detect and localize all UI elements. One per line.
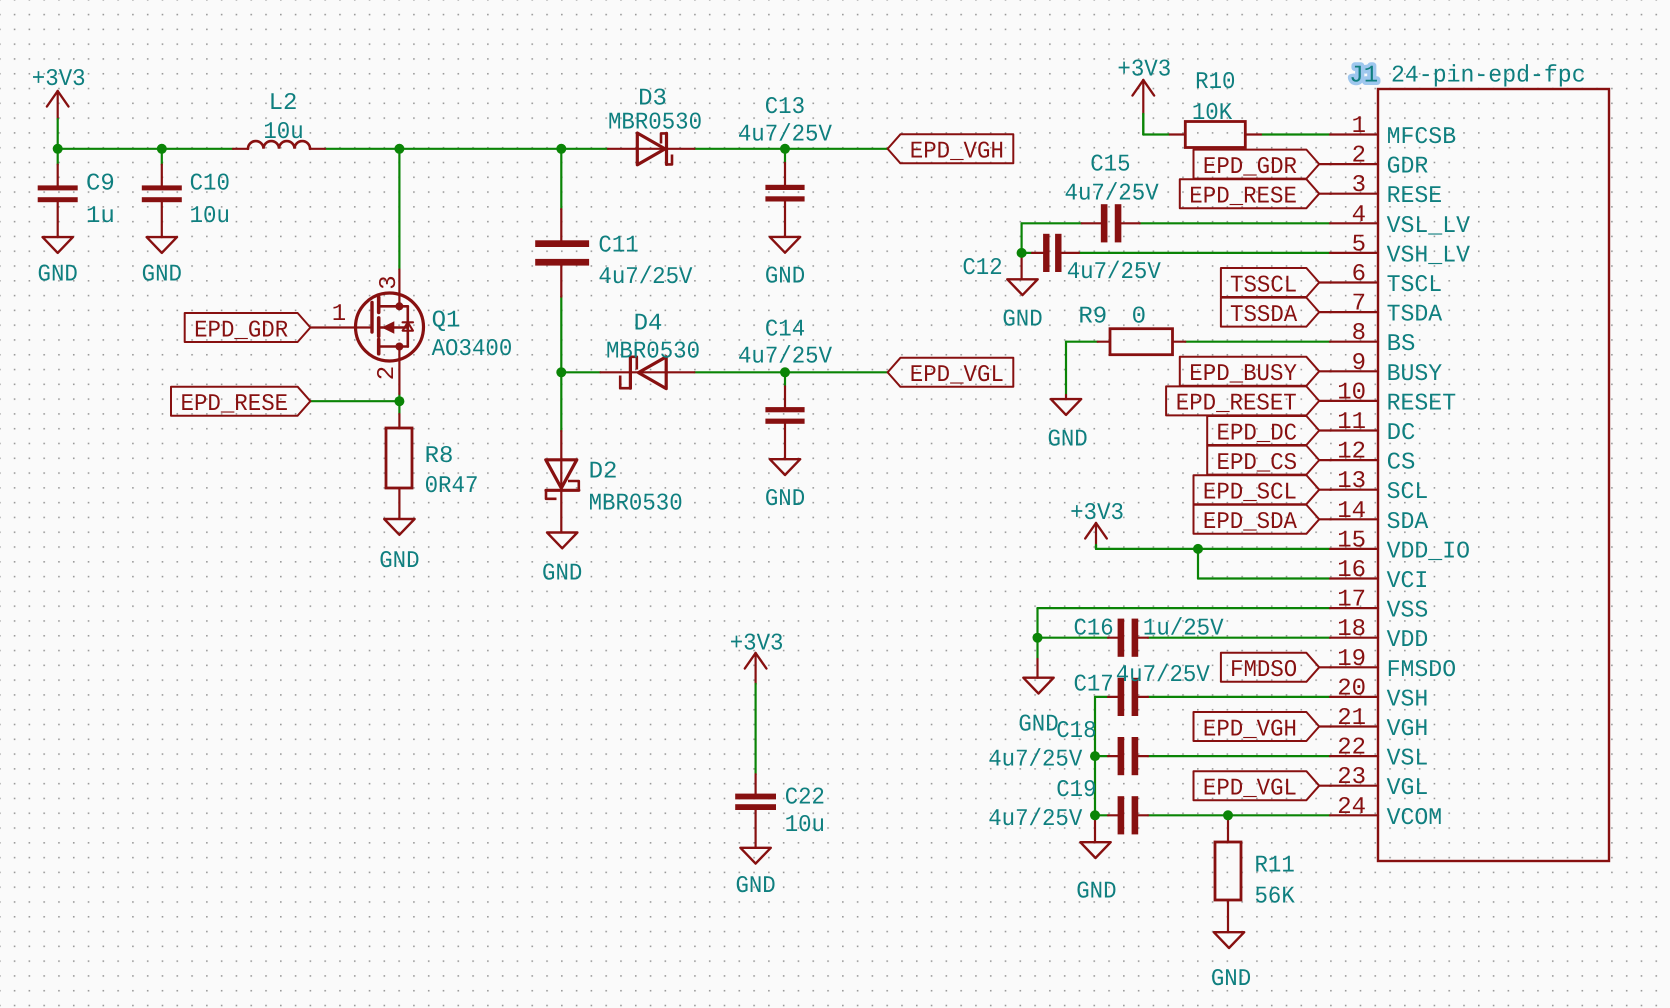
svg-text:4: 4 <box>1352 202 1366 229</box>
svg-text:GND: GND <box>1076 879 1116 906</box>
svg-text:24: 24 <box>1337 794 1366 821</box>
svg-text:GDR: GDR <box>1387 154 1429 181</box>
svg-text:+3V3: +3V3 <box>1070 500 1124 527</box>
svg-text:1u: 1u <box>86 203 115 230</box>
svg-text:4u7/25V: 4u7/25V <box>738 343 833 370</box>
svg-text:C10: C10 <box>190 171 230 198</box>
svg-text:TSSCL: TSSCL <box>1230 272 1297 299</box>
svg-text:16: 16 <box>1337 557 1366 584</box>
svg-text:MBR0530: MBR0530 <box>589 491 683 518</box>
svg-text:14: 14 <box>1337 498 1366 525</box>
svg-text:5: 5 <box>1352 231 1366 258</box>
svg-text:C13: C13 <box>765 94 805 121</box>
svg-text:MBR0530: MBR0530 <box>608 110 702 137</box>
svg-text:EPD_VGH: EPD_VGH <box>1203 716 1297 743</box>
svg-text:C19: C19 <box>1056 777 1096 804</box>
svg-text:2: 2 <box>374 366 401 380</box>
svg-text:VCI: VCI <box>1387 568 1429 595</box>
svg-text:VSH_LV: VSH_LV <box>1387 242 1471 269</box>
svg-text:L2: L2 <box>269 90 298 117</box>
svg-text:1: 1 <box>332 301 346 328</box>
svg-text:C9: C9 <box>86 171 115 198</box>
svg-text:8: 8 <box>1352 320 1366 347</box>
svg-text:VSS: VSS <box>1387 598 1429 625</box>
svg-text:GND: GND <box>1047 427 1087 454</box>
svg-text:EPD_DC: EPD_DC <box>1216 420 1297 447</box>
svg-text:DC: DC <box>1387 420 1416 447</box>
svg-text:EPD_RESE: EPD_RESE <box>181 391 289 418</box>
svg-text:VCOM: VCOM <box>1387 805 1443 832</box>
svg-text:GND: GND <box>38 262 78 289</box>
svg-text:C12: C12 <box>962 255 1002 282</box>
svg-text:10u: 10u <box>190 203 230 230</box>
svg-text:VDD_IO: VDD_IO <box>1387 538 1470 565</box>
svg-text:GND: GND <box>1211 966 1251 993</box>
svg-text:TSCL: TSCL <box>1387 272 1443 299</box>
svg-text:EPD_VGL: EPD_VGL <box>910 362 1004 389</box>
svg-text:C18: C18 <box>1056 718 1096 745</box>
svg-text:BUSY: BUSY <box>1387 361 1443 388</box>
svg-text:2: 2 <box>1352 143 1366 170</box>
svg-text:GND: GND <box>1018 712 1058 739</box>
svg-text:EPD_VGL: EPD_VGL <box>1203 776 1297 803</box>
svg-text:GND: GND <box>1002 307 1042 334</box>
svg-text:24-pin-epd-fpc: 24-pin-epd-fpc <box>1391 63 1586 90</box>
svg-text:C22: C22 <box>785 785 825 812</box>
svg-text:TSSDA: TSSDA <box>1230 302 1298 329</box>
svg-text:18: 18 <box>1337 616 1366 643</box>
svg-text:D3: D3 <box>638 86 667 113</box>
svg-text:MFCSB: MFCSB <box>1387 124 1457 151</box>
svg-text:1u/25V: 1u/25V <box>1143 616 1224 643</box>
svg-text:R11: R11 <box>1255 853 1295 880</box>
svg-text:GND: GND <box>765 486 805 513</box>
svg-text:R9: R9 <box>1078 304 1107 331</box>
svg-text:10: 10 <box>1337 379 1366 406</box>
svg-text:7: 7 <box>1352 291 1366 318</box>
svg-text:D2: D2 <box>589 459 618 486</box>
svg-text:17: 17 <box>1337 587 1366 614</box>
svg-text:VGL: VGL <box>1387 775 1429 802</box>
svg-text:+3V3: +3V3 <box>32 66 86 93</box>
svg-text:SDA: SDA <box>1387 509 1429 536</box>
svg-text:10u: 10u <box>785 812 825 839</box>
svg-text:FMSDO: FMSDO <box>1387 657 1457 684</box>
svg-text:GND: GND <box>765 264 805 291</box>
svg-text:11: 11 <box>1337 409 1366 436</box>
svg-text:GND: GND <box>142 262 182 289</box>
svg-text:VGH: VGH <box>1387 716 1429 743</box>
svg-text:23: 23 <box>1337 764 1366 791</box>
svg-text:12: 12 <box>1337 439 1366 466</box>
svg-text:4u7/25V: 4u7/25V <box>598 264 693 291</box>
svg-text:EPD_SCL: EPD_SCL <box>1203 480 1297 507</box>
svg-text:C15: C15 <box>1090 152 1130 179</box>
svg-text:10K: 10K <box>1192 100 1233 127</box>
svg-text:6: 6 <box>1352 261 1366 288</box>
svg-text:C17: C17 <box>1073 672 1113 699</box>
svg-text:4u7/25V: 4u7/25V <box>1065 181 1160 208</box>
svg-text:4u7/25V: 4u7/25V <box>988 806 1083 833</box>
svg-text:9: 9 <box>1352 350 1366 377</box>
svg-text:VSL: VSL <box>1387 746 1429 773</box>
svg-text:TSDA: TSDA <box>1387 302 1443 329</box>
svg-text:AO3400: AO3400 <box>432 336 513 363</box>
svg-text:4u7/25V: 4u7/25V <box>1116 662 1211 689</box>
svg-text:EPD_GDR: EPD_GDR <box>1203 154 1297 181</box>
svg-text:EPD_RESE: EPD_RESE <box>1189 184 1297 211</box>
svg-text:EPD_VGH: EPD_VGH <box>910 139 1004 166</box>
svg-text:VDD: VDD <box>1387 627 1429 654</box>
svg-text:GND: GND <box>735 873 775 900</box>
svg-text:GND: GND <box>379 548 419 575</box>
svg-text:FMDSO: FMDSO <box>1230 657 1297 684</box>
svg-text:EPD_GDR: EPD_GDR <box>194 317 288 344</box>
svg-text:EPD_SDA: EPD_SDA <box>1203 509 1298 536</box>
svg-text:10u: 10u <box>263 119 303 146</box>
svg-text:22: 22 <box>1337 735 1366 762</box>
svg-text:EPD_CS: EPD_CS <box>1216 450 1297 477</box>
svg-text:+3V3: +3V3 <box>1117 57 1171 84</box>
svg-text:0: 0 <box>1132 304 1146 331</box>
svg-text:+3V3: +3V3 <box>730 631 784 658</box>
svg-text:56K: 56K <box>1255 884 1296 911</box>
svg-text:BS: BS <box>1387 331 1416 358</box>
svg-text:VSL_LV: VSL_LV <box>1387 213 1471 240</box>
svg-text:VSH: VSH <box>1387 686 1429 713</box>
svg-text:C11: C11 <box>598 232 638 259</box>
svg-text:RESE: RESE <box>1387 183 1443 210</box>
svg-text:D4: D4 <box>634 311 663 338</box>
svg-text:1: 1 <box>1352 113 1366 140</box>
svg-text:CS: CS <box>1387 450 1416 477</box>
svg-text:3: 3 <box>376 275 403 289</box>
svg-text:RESET: RESET <box>1387 390 1457 417</box>
svg-text:0R47: 0R47 <box>425 473 479 500</box>
svg-text:4u7/25V: 4u7/25V <box>738 122 833 149</box>
svg-text:MBR0530: MBR0530 <box>606 339 700 366</box>
svg-text:R8: R8 <box>425 443 454 470</box>
svg-text:C16: C16 <box>1073 616 1113 643</box>
svg-text:19: 19 <box>1337 646 1366 673</box>
svg-text:EPD_BUSY: EPD_BUSY <box>1189 361 1297 388</box>
svg-text:GND: GND <box>542 561 582 588</box>
svg-text:4u7/25V: 4u7/25V <box>988 747 1083 774</box>
svg-text:C14: C14 <box>765 316 805 343</box>
svg-text:20: 20 <box>1337 675 1366 702</box>
svg-text:13: 13 <box>1337 468 1366 495</box>
svg-text:15: 15 <box>1337 527 1366 554</box>
svg-text:21: 21 <box>1337 705 1366 732</box>
svg-text:Q1: Q1 <box>432 308 461 335</box>
svg-text:EPD_RESET: EPD_RESET <box>1176 391 1297 418</box>
svg-text:J1: J1 <box>1349 63 1378 90</box>
svg-text:SCL: SCL <box>1387 479 1429 506</box>
svg-text:3: 3 <box>1352 172 1366 199</box>
svg-text:R10: R10 <box>1195 69 1235 96</box>
svg-text:4u7/25V: 4u7/25V <box>1067 259 1162 286</box>
